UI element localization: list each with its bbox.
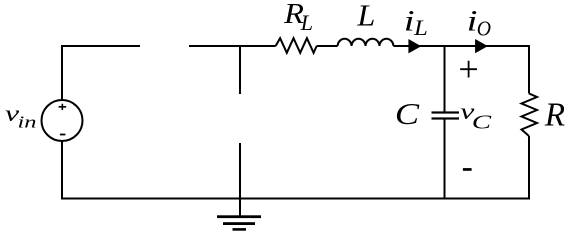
ground bar 2 xyxy=(223,222,255,225)
minus sign capacitor xyxy=(463,168,472,171)
resistor R_L xyxy=(276,38,317,53)
wire top-left horizontal xyxy=(62,46,140,100)
svg-text:L: L xyxy=(413,16,428,40)
ground bar 1 xyxy=(217,215,261,218)
current arrow i_L xyxy=(408,39,421,53)
wire capacitor branch upper xyxy=(444,46,446,114)
capacitor C plate bottom xyxy=(432,117,460,119)
svg-text:C: C xyxy=(472,112,492,134)
wire bottom xyxy=(61,198,530,200)
switch stub lower to ground xyxy=(239,143,241,217)
svg-text:O: O xyxy=(477,18,492,41)
voltage source v_in xyxy=(42,100,83,141)
svg-text:R: R xyxy=(544,96,565,134)
switch stub upper (node A) xyxy=(239,45,241,94)
wire between resistor and inductor xyxy=(317,45,338,47)
svg-text:L: L xyxy=(356,0,375,33)
wire capacitor branch lower xyxy=(444,118,446,200)
minus sign source xyxy=(60,134,66,136)
wire top middle segment xyxy=(189,45,276,47)
resistor R xyxy=(522,94,538,137)
wire right vertical lower xyxy=(528,136,530,200)
plus sign capacitor xyxy=(460,61,477,78)
svg-text:L: L xyxy=(300,10,313,35)
plus sign source xyxy=(59,104,67,110)
svg-text:C: C xyxy=(395,97,420,131)
wire left vertical below source xyxy=(61,141,63,200)
svg-text:i: i xyxy=(404,4,415,38)
inductor L xyxy=(338,39,394,46)
svg-text:in: in xyxy=(18,112,37,131)
capacitor C plate top xyxy=(432,111,460,113)
current arrow i_O xyxy=(475,39,488,53)
wire top right xyxy=(393,46,529,94)
ground bar 3 xyxy=(233,228,247,231)
